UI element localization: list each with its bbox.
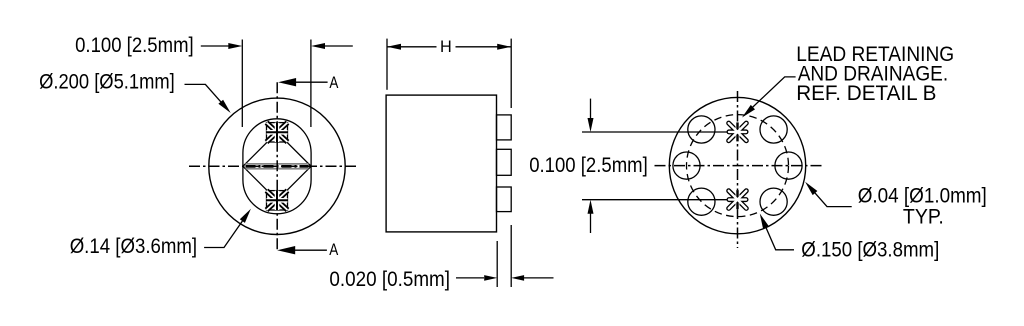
svg-text:0.100 [2.5mm]: 0.100 [2.5mm] <box>529 154 648 177</box>
svg-text:Ø.04 [Ø1.0mm]: Ø.04 [Ø1.0mm] <box>858 185 987 208</box>
svg-text:A: A <box>329 74 338 92</box>
svg-text:Ø.150 [Ø3.8mm]: Ø.150 [Ø3.8mm] <box>801 239 939 262</box>
svg-text:0.100 [2.5mm]: 0.100 [2.5mm] <box>75 34 194 57</box>
svg-text:Ø.14 [Ø3.6mm]: Ø.14 [Ø3.6mm] <box>70 235 197 258</box>
svg-text:Ø.200 [Ø5.1mm]: Ø.200 [Ø5.1mm] <box>39 70 175 93</box>
svg-text:H: H <box>440 38 452 56</box>
svg-text:A: A <box>329 241 338 259</box>
svg-text:TYP.: TYP. <box>903 205 944 228</box>
svg-text:REF. DETAIL B: REF. DETAIL B <box>796 82 936 105</box>
svg-text:0.020 [0.5mm]: 0.020 [0.5mm] <box>329 268 450 291</box>
